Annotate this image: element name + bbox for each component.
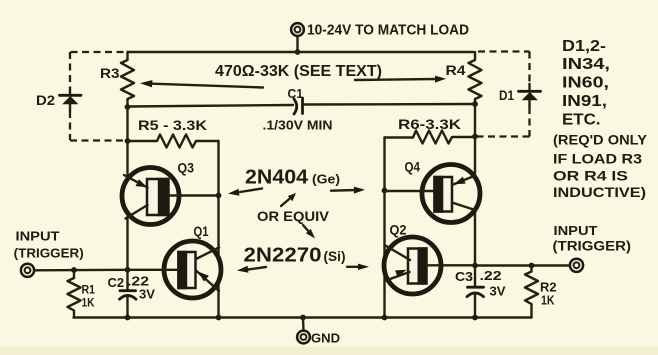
junction dot right rail R6 xyxy=(472,134,478,140)
svg-text:INPUT: INPUT xyxy=(554,223,598,238)
junction dot R1 top xyxy=(71,267,77,273)
resistor R1 xyxy=(68,270,81,318)
arrow to R3 xyxy=(140,80,263,88)
svg-text:2N404: 2N404 xyxy=(245,167,309,189)
wire power terminal stem xyxy=(296,37,298,53)
svg-text:OR EQUIV: OR EQUIV xyxy=(257,208,330,224)
label REQ'D note xyxy=(553,132,648,201)
resistor R4 xyxy=(469,52,482,104)
resistor R2 xyxy=(525,266,538,318)
input terminal left xyxy=(21,264,34,277)
input terminal right xyxy=(570,259,583,272)
svg-text:Q1: Q1 xyxy=(194,224,209,239)
wire left rail upper xyxy=(126,107,128,141)
dashed D1 lower xyxy=(528,107,530,137)
diode D2 dashed branch xyxy=(71,51,127,53)
svg-text:(Ge): (Ge) xyxy=(312,172,340,187)
svg-text:10-24V TO MATCH LOAD: 10-24V TO MATCH LOAD xyxy=(307,23,469,39)
wire bottom rail xyxy=(74,316,532,318)
wire cross rail left lower (Q1 emitter to ground rail) xyxy=(217,281,219,318)
ground terminal xyxy=(297,318,310,344)
junction dot C3 bottom xyxy=(472,315,478,321)
svg-text:D1: D1 xyxy=(499,87,514,103)
svg-text:470Ω-33K (SEE TEXT): 470Ω-33K (SEE TEXT) xyxy=(215,63,382,80)
svg-text:C2: C2 xyxy=(108,276,125,290)
arrow 2N2270 to Q1 xyxy=(237,266,266,273)
svg-text:GND: GND xyxy=(311,332,340,346)
svg-text:D2: D2 xyxy=(36,92,55,108)
junction dot C2 bottom xyxy=(125,315,131,321)
power terminal V+ xyxy=(291,23,304,36)
svg-text:.22: .22 xyxy=(127,275,149,289)
arrow to R4 xyxy=(355,76,446,83)
wire left rail Q3 collector down xyxy=(126,217,128,270)
svg-text:R5 - 3.3K: R5 - 3.3K xyxy=(138,117,207,133)
svg-text:D1,2-: D1,2- xyxy=(562,38,606,55)
wire top rail xyxy=(128,51,474,53)
resistor R3 xyxy=(121,52,134,107)
wire cross rail left (R5 to Q3 base / Q1 collector) xyxy=(217,141,219,259)
label D1,2- list xyxy=(562,38,610,129)
wire right rail upper xyxy=(474,104,476,177)
junction dot Q2 base node xyxy=(472,263,478,269)
svg-text:R1: R1 xyxy=(82,283,96,297)
arrow 2N404 to Q4 base xyxy=(331,187,365,194)
diode D1 dashed branch xyxy=(478,50,530,52)
wire cross rail right xyxy=(383,138,385,318)
junction dot cross rail left bottom xyxy=(216,315,222,321)
dashed D2 lower xyxy=(69,111,71,140)
wire right rail Q4 collector down xyxy=(474,211,476,266)
svg-text:.22: .22 xyxy=(480,269,502,283)
wire input left xyxy=(35,269,128,272)
svg-text:(TRIGGER): (TRIGGER) xyxy=(553,239,632,254)
transistor Q4 xyxy=(385,165,481,223)
junction dot Q3 base xyxy=(216,193,222,199)
wire left rail to Q3 emitter xyxy=(126,141,128,177)
svg-text:3V: 3V xyxy=(490,285,507,299)
junction dot R3 bottom xyxy=(125,104,131,110)
arrow OR EQUIV up xyxy=(281,193,296,206)
svg-text:IN91,: IN91, xyxy=(562,93,607,110)
resistor R6 xyxy=(385,131,476,144)
svg-text:ETC.: ETC. xyxy=(562,112,601,129)
svg-text:1K: 1K xyxy=(541,293,555,308)
svg-text:R6-3.3K: R6-3.3K xyxy=(398,116,461,132)
capacitor C3 xyxy=(467,266,484,318)
svg-text:INDUCTIVE): INDUCTIVE) xyxy=(553,184,646,200)
svg-text:Q4: Q4 xyxy=(405,160,421,175)
junction dot input node left xyxy=(125,267,131,273)
svg-text:OR R4 IS: OR R4 IS xyxy=(553,168,628,184)
junction dot cross rail right bottom xyxy=(382,315,388,321)
resistor R5 xyxy=(128,135,219,148)
svg-text:1K: 1K xyxy=(82,296,95,310)
svg-text:R3: R3 xyxy=(100,65,120,81)
diode D1 xyxy=(519,84,541,107)
arrow 2N2270 to Q2 xyxy=(347,264,369,270)
junction dot left rail R5 xyxy=(125,138,131,144)
svg-text:(TRIGGER): (TRIGGER) xyxy=(14,246,84,261)
arrow 2N404 to Q3 base xyxy=(228,189,262,196)
wire input right xyxy=(475,264,570,266)
wire C1 left xyxy=(128,105,294,107)
diode D2 xyxy=(60,88,82,111)
capacitor C1 xyxy=(294,98,303,114)
junction dot R4 bottom xyxy=(472,101,478,107)
svg-text:Q3: Q3 xyxy=(178,161,195,176)
transistor Q1 xyxy=(128,241,222,298)
svg-text:C3: C3 xyxy=(455,269,473,284)
capacitor C2 xyxy=(120,270,137,318)
junction dot Q4 base xyxy=(382,188,388,194)
svg-text:.1/30V MIN: .1/30V MIN xyxy=(263,118,333,133)
svg-text:IN34,: IN34, xyxy=(562,56,610,73)
svg-text:3V: 3V xyxy=(139,288,156,302)
svg-text:C1: C1 xyxy=(288,86,304,101)
wire C1 right xyxy=(303,103,475,106)
arrow OR EQUIV down xyxy=(303,225,315,239)
svg-text:Q2: Q2 xyxy=(390,223,407,238)
junction dot R2 top xyxy=(529,263,535,269)
svg-text:R4: R4 xyxy=(446,62,466,78)
junction dot gnd stem xyxy=(300,315,306,321)
transistor Q3 xyxy=(122,168,219,225)
svg-text:2N2270: 2N2270 xyxy=(244,245,322,267)
svg-text:IN60,: IN60, xyxy=(562,75,609,92)
svg-text:IF LOAD R3: IF LOAD R3 xyxy=(553,151,642,167)
svg-text:(REQ'D ONLY: (REQ'D ONLY xyxy=(553,132,648,148)
junction dot top rail xyxy=(295,49,301,55)
svg-text:INPUT: INPUT xyxy=(16,229,60,244)
svg-text:(Si): (Si) xyxy=(324,249,346,264)
transistor Q2 xyxy=(384,237,475,294)
